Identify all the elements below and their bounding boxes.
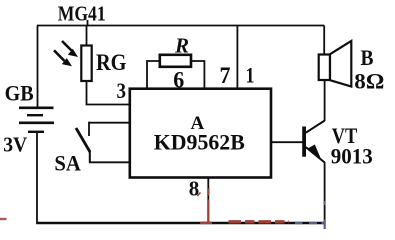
svg-text:7: 7 [220, 63, 231, 88]
svg-text:GB: GB [5, 81, 34, 106]
svg-text:MG41: MG41 [58, 2, 106, 26]
svg-text:6: 6 [173, 68, 184, 93]
svg-text:SA: SA [54, 151, 81, 176]
svg-text:8: 8 [189, 176, 200, 200]
svg-text:KD9562B: KD9562B [154, 130, 245, 155]
svg-text:1: 1 [246, 63, 255, 88]
svg-text:3V: 3V [3, 133, 27, 157]
svg-text:R: R [174, 34, 189, 58]
svg-text:9013: 9013 [331, 144, 373, 169]
svg-text:3: 3 [117, 78, 127, 103]
svg-text:B: B [361, 45, 374, 70]
svg-text:8Ω: 8Ω [354, 69, 384, 94]
svg-text:RG: RG [96, 50, 127, 75]
